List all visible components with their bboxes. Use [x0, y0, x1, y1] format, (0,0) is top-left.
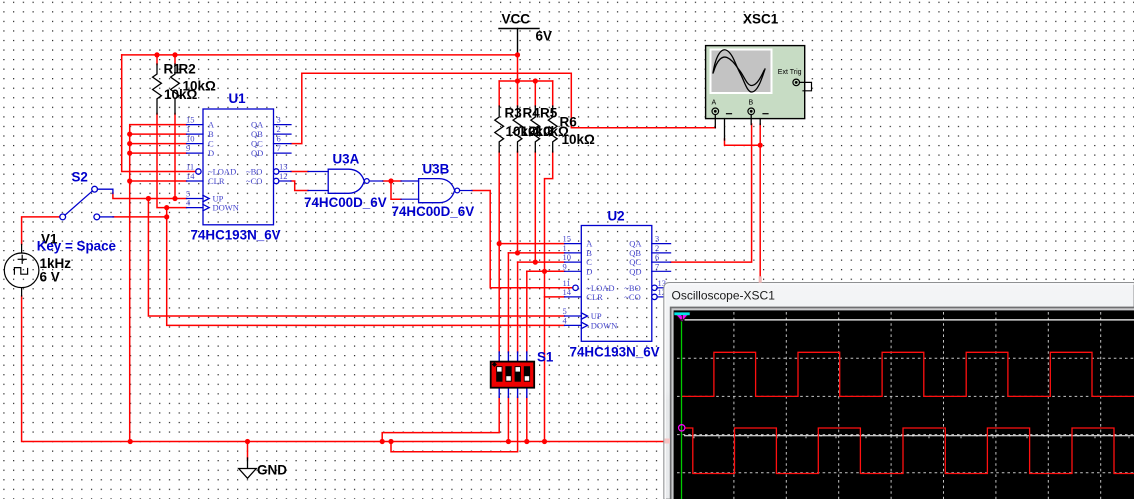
wire U1 B row	[130, 133, 187, 135]
S1 corner dot	[492, 362, 497, 367]
svg-text:~CO: ~CO	[624, 292, 640, 302]
pin 11 bubble	[196, 169, 201, 174]
svg-text:QD: QD	[251, 148, 263, 158]
oscilloscope window XSC1	[664, 276, 1134, 499]
wire S1 pin2 bottom to rail	[507, 397, 509, 442]
svg-text:U3B: U3B	[423, 162, 450, 177]
svg-text:15: 15	[186, 115, 195, 125]
pin 11 bubble	[573, 285, 578, 290]
wire R6 top stub	[552, 81, 554, 107]
wire U2 B elbow to S1 pin2	[507, 253, 509, 353]
svg-text:B: B	[749, 100, 754, 107]
wire U2 CLR row	[545, 296, 565, 298]
wire U1 D row	[130, 152, 187, 154]
wire resistor rail y=81	[499, 80, 553, 82]
U3A input stubs (blue part)	[308, 171, 328, 173]
wire V1 top to S2 pivot	[22, 217, 60, 245]
NAND gate U3A	[308, 169, 383, 193]
window frame	[664, 283, 1134, 499]
svg-text:QB: QB	[251, 129, 263, 139]
wire GND stub	[247, 442, 249, 460]
node U1 C row	[127, 141, 132, 146]
svg-text:~CO: ~CO	[246, 176, 262, 186]
wire R1 top stub	[156, 55, 158, 65]
wire R4 bottom to U2 B row	[517, 152, 519, 253]
node rail S1p3	[388, 439, 393, 444]
pin 3 QA stub	[274, 124, 292, 126]
node U3A output	[388, 178, 393, 183]
pin 9 stub	[187, 152, 204, 154]
channel B marker circle	[679, 425, 685, 431]
svg-text:9: 9	[186, 143, 190, 153]
scope screen black	[674, 310, 1134, 499]
svg-text:14: 14	[563, 287, 572, 297]
sine wave 1	[713, 50, 765, 92]
svg-text:C: C	[208, 139, 214, 149]
svg-text:QC: QC	[251, 139, 263, 149]
svg-text:U1: U1	[229, 91, 247, 106]
wire U1 data bus vertical to ground	[130, 125, 187, 442]
svg-text:10kΩ: 10kΩ	[562, 132, 596, 147]
node rail-R4	[515, 78, 520, 83]
svg-text:S2: S2	[72, 170, 88, 185]
svg-text:VCC: VCC	[502, 12, 531, 27]
wire R2 bottom to U1 UP row	[174, 114, 176, 199]
resistor R4	[513, 106, 522, 152]
node VCC junction	[515, 52, 520, 57]
wire R2 top stub	[174, 55, 176, 65]
source V1	[4, 244, 39, 296]
node clock row stub	[164, 214, 169, 219]
svg-text:S1: S1	[537, 350, 554, 365]
wire U1 UP row branch down to U2 UP	[148, 199, 564, 317]
wire S2 top throw to U1 UP row	[113, 193, 187, 199]
window inner highlight	[665, 284, 1134, 499]
wire R3 bottom to U2 A and S1 pin1	[498, 152, 500, 353]
Ext Trig terminal	[793, 79, 800, 86]
U2 pin names	[586, 239, 642, 331]
svg-text:D: D	[586, 266, 592, 276]
terminal stubs below box	[714, 115, 716, 128]
svg-text:1: 1	[186, 124, 190, 134]
instrument XSC1	[706, 46, 812, 140]
svg-text:~LOAD: ~LOAD	[208, 167, 236, 177]
wire S1 pin4 bottom to rail	[526, 397, 528, 442]
wire U3A out branch to U3B input b	[391, 181, 401, 199]
B terminal	[748, 108, 755, 115]
S1 slot 3	[515, 366, 521, 382]
IC U2 74HC193N box	[565, 226, 671, 342]
pin 7 QD stub	[274, 152, 292, 154]
node rail S1p4	[524, 439, 529, 444]
wire U1 C row	[130, 143, 187, 145]
node rail V1 bus	[128, 439, 133, 444]
sine wave 2	[714, 57, 765, 85]
wire U2 A row	[499, 243, 564, 245]
node U2 B-R4	[515, 250, 520, 255]
client bezel	[670, 307, 1134, 499]
wire U2 B row	[508, 252, 564, 254]
svg-text:74HC193N_6V: 74HC193N_6V	[570, 345, 660, 360]
node rail S1p2	[506, 439, 511, 444]
ground	[239, 458, 257, 478]
svg-text:1: 1	[680, 315, 684, 322]
node U2 A-R3	[497, 241, 502, 246]
U3B input stubs (blue part)	[401, 180, 419, 182]
svg-text:7: 7	[655, 261, 659, 271]
svg-text:A: A	[712, 100, 717, 107]
S1 slot 1	[496, 366, 502, 382]
resistor R3	[495, 106, 504, 152]
svg-text:7: 7	[277, 143, 281, 153]
red wire bleed through border	[759, 276, 762, 283]
node R2-UP row	[172, 196, 177, 201]
wire S1 pin1 bottom to rail	[382, 397, 499, 442]
pin 13 ~BO bubble+stub	[274, 169, 279, 174]
wire scope A- down	[725, 139, 761, 145]
pin 4 clock arrow + stub	[203, 204, 209, 210]
svg-text:R5: R5	[540, 106, 558, 121]
wire S1 pin3 bottom loop to rail	[391, 397, 518, 452]
node rail GND	[245, 439, 250, 444]
pin 12 ~CO bubble+stub	[652, 294, 657, 299]
wire U2 QC to scope B	[671, 124, 752, 262]
wire V1 bottom to ground rail	[22, 296, 664, 442]
S1 slot 2	[505, 366, 511, 382]
A terminal	[712, 108, 719, 115]
green time cursor	[681, 321, 683, 499]
svg-text:A: A	[208, 120, 215, 130]
wire U3B out down to U2 ~LOAD	[472, 191, 573, 288]
svg-text:6 V: 6 V	[40, 270, 60, 285]
node U1 CLR row	[127, 178, 132, 183]
pin 7 QD stub	[652, 270, 671, 272]
pin 4 clock arrow + stub	[581, 322, 587, 328]
pin 2 QB stub	[274, 133, 292, 135]
resistor R6	[548, 106, 557, 152]
svg-text:12: 12	[279, 171, 288, 181]
svg-text:U3A: U3A	[333, 152, 360, 167]
scope grid	[677, 312, 1134, 499]
svg-text:6V: 6V	[536, 29, 553, 44]
svg-text:CLR: CLR	[586, 292, 603, 302]
node rail-R5	[533, 78, 538, 83]
node U2 C-R5	[533, 260, 538, 265]
node R1 top	[154, 52, 159, 57]
wire R5 bottom to U2 C row	[534, 152, 536, 263]
wire U3A out to U3B inputs	[383, 180, 401, 182]
svg-text:10kΩ: 10kΩ	[183, 79, 217, 94]
node scope A-/B-	[758, 143, 763, 148]
pin 5 clock arrow + stub	[203, 195, 209, 201]
wire R5 top stub	[534, 81, 536, 107]
wire U2 C row	[518, 261, 565, 263]
resistor R2	[171, 64, 180, 114]
pin 15 stub	[565, 243, 582, 245]
S1 bottom pin stubs	[498, 388, 500, 398]
pin 10 stub	[565, 261, 582, 263]
node U1 D row	[127, 151, 132, 156]
wire scope B- down behind window	[759, 124, 761, 283]
svg-text:B: B	[208, 129, 214, 139]
svg-text:6: 6	[277, 134, 281, 144]
node rail R6	[542, 439, 547, 444]
svg-text:U2: U2	[608, 209, 625, 224]
svg-text:74HC00D_6V: 74HC00D_6V	[392, 204, 475, 219]
svg-text:3: 3	[277, 115, 281, 125]
svg-text:GND: GND	[257, 463, 287, 478]
svg-text:CLR: CLR	[208, 176, 225, 186]
pin 5 clock arrow + stub	[581, 313, 587, 319]
node UP row branch	[146, 196, 151, 201]
svg-text:Oscilloscope-XSC1: Oscilloscope-XSC1	[672, 289, 776, 303]
svg-text:10: 10	[186, 134, 195, 144]
svg-text:DOWN: DOWN	[213, 203, 239, 213]
wire U2 C elbow to S1 pin3	[517, 262, 519, 352]
wire R4 top stub	[517, 81, 519, 107]
wire V1 clock stub to U1 DOWN row	[166, 208, 168, 217]
NAND gate U3B	[401, 179, 472, 203]
svg-text:D: D	[208, 148, 214, 158]
svg-text:R6: R6	[560, 115, 578, 130]
svg-text:R3: R3	[505, 106, 523, 121]
switch S2	[60, 186, 114, 220]
IC U1 74HC193N box	[187, 109, 292, 225]
channel A trace	[682, 352, 1134, 396]
svg-text:14: 14	[186, 171, 195, 181]
wire VCC drop to resistor rail	[517, 55, 519, 81]
wire VCC to U1 ~LOAD vertical	[122, 55, 196, 172]
svg-text:R4: R4	[523, 106, 541, 121]
U1 pin names	[208, 120, 264, 213]
U1 pin numbers	[186, 115, 288, 208]
svg-text:~BO: ~BO	[246, 167, 262, 177]
S1 slot 4	[524, 366, 530, 382]
node U1 B row	[127, 132, 132, 137]
wire R3 top stub	[498, 81, 500, 107]
pin 14 stub	[565, 296, 582, 298]
svg-text:Key = Space: Key = Space	[37, 239, 116, 254]
node rail S1p1	[380, 439, 385, 444]
pin 9 stub	[565, 270, 582, 272]
pin 6 QC stub	[652, 261, 671, 263]
S1 top pin stubs	[499, 352, 527, 397]
S1 body	[491, 362, 535, 388]
pin 10 stub	[187, 143, 204, 145]
switch S1	[491, 352, 535, 397]
U2 pin numbers	[563, 234, 667, 326]
wire R1 bottom to U1 DOWN row	[157, 114, 187, 208]
svg-text:2: 2	[277, 124, 281, 134]
channel B trace	[685, 428, 1134, 474]
pin 1 stub	[187, 133, 204, 135]
pin 14 stub	[187, 180, 204, 182]
pin 13 ~BO bubble+stub	[652, 285, 657, 290]
pin 15 stub	[187, 124, 204, 126]
cursor 1 triangle marker	[674, 313, 689, 322]
svg-text:XSC1: XSC1	[743, 12, 779, 27]
pin 1 stub	[565, 252, 582, 254]
minus marks	[727, 113, 732, 115]
svg-text:QD: QD	[629, 266, 641, 276]
channel B noisy reference line	[684, 435, 1134, 437]
node DOWN row stub	[164, 205, 169, 210]
svg-text:Ext Trig: Ext Trig	[778, 69, 802, 76]
svg-text:QA: QA	[251, 120, 264, 130]
node R2 top	[172, 52, 177, 57]
wire U1 CLR row	[130, 180, 187, 182]
pin 6 QC stub	[274, 143, 292, 145]
wire U2 D row	[527, 270, 565, 272]
wire V1 clock down to U2 DOWN	[167, 217, 565, 326]
wire V1 clock row	[113, 216, 167, 218]
svg-text:R2: R2	[179, 62, 196, 77]
svg-text:DOWN: DOWN	[591, 320, 617, 330]
pin 3 QA stub	[652, 243, 671, 245]
node U2 D-R6	[542, 269, 547, 274]
pin 12 ~CO bubble+stub	[274, 178, 279, 183]
svg-text:11: 11	[186, 162, 194, 172]
wire R6 bottom jog and vertical to ground rail	[545, 152, 553, 442]
wire U1 QC up and across to scope A	[291, 73, 715, 143]
wire VCC rail y=55	[122, 54, 518, 56]
resistor R5	[531, 106, 540, 152]
wire U1 ~CO to U3A input b	[291, 181, 308, 191]
svg-text:9: 9	[563, 261, 567, 271]
pin 2 QB stub	[652, 252, 671, 254]
wire U2 D elbow to S1 pin4	[526, 271, 528, 352]
svg-text:74HC193N_6V: 74HC193N_6V	[191, 228, 281, 243]
svg-text:74HC00D_6V: 74HC00D_6V	[304, 195, 387, 210]
wire U1 ~BO to U3A input a	[291, 171, 308, 173]
VCC symbol	[499, 29, 539, 54]
resistor R1	[153, 64, 162, 114]
scope top white line	[685, 319, 1134, 321]
svg-text:13: 13	[279, 162, 288, 172]
